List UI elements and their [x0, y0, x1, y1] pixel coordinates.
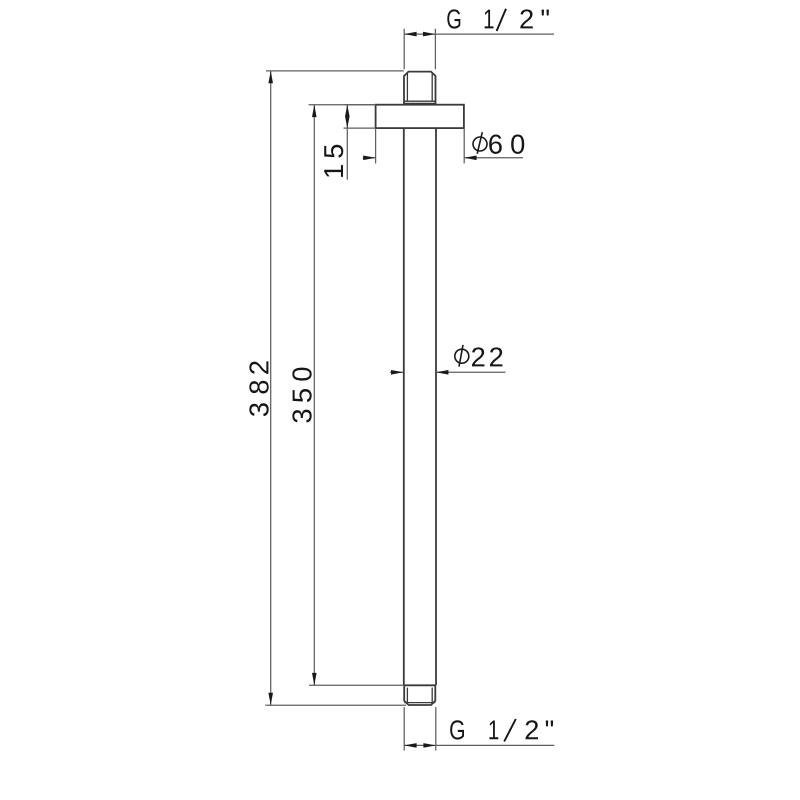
top connector thread inner lines	[404, 74, 436, 102]
label G 1/2" bottom	[450, 720, 553, 739]
tube bottom edge	[404, 684, 436, 686]
arrow 15 bottom	[345, 116, 350, 128]
slash of G 1/2 top	[497, 9, 506, 31]
tube left wall	[403, 128, 405, 685]
arrow 15 top	[345, 105, 350, 117]
tube right wall	[435, 128, 437, 685]
arrow G1/2 bottom left	[404, 743, 416, 748]
slash of G 1/2 bottom	[504, 719, 516, 742]
diameter symbol of phi22	[455, 345, 469, 367]
arrow phi22 right	[436, 370, 448, 375]
label 22 of phi22	[472, 347, 502, 366]
dim 350 top extension line	[309, 104, 376, 106]
dim 15 top extension line	[344, 104, 376, 106]
diameter symbol of phi60	[473, 132, 487, 154]
dim phi60 extension lines	[376, 128, 465, 163]
dim 350 bottom extension line	[309, 684, 404, 686]
dim 15 dimension line with tail	[346, 105, 348, 180]
dim 382 top extension line	[266, 70, 404, 72]
bottom connector G1/2 thread outer	[404, 685, 435, 705]
flange (wall plate)	[376, 105, 464, 128]
dim G1/2 top dimension line	[404, 33, 554, 35]
arrow phi60 right	[464, 156, 476, 161]
arrow G1/2 top left	[404, 32, 416, 37]
label 15	[324, 145, 343, 177]
dim 382 bottom extension line	[265, 704, 406, 706]
label G 1/2" top	[447, 9, 549, 28]
dim G1/2 bottom dimension line	[404, 744, 554, 746]
bottom connector thread inner lines	[404, 688, 435, 703]
arrow G1/2 bottom right	[423, 743, 435, 748]
arrow G1/2 top right	[423, 32, 435, 37]
arrow 382 bottom	[268, 693, 273, 705]
label 60 of phi60	[489, 135, 524, 154]
dim phi60 dimension line right tail	[464, 157, 523, 159]
dim phi22 dimension line right tail	[436, 371, 505, 373]
dim phi60 dimension line left tail	[363, 157, 376, 159]
label 382	[249, 361, 268, 416]
dim G1/2 bottom extension lines	[404, 707, 436, 751]
top connector G1/2 thread outer	[404, 72, 436, 104]
arrow 350 bottom	[312, 673, 317, 685]
arrow phi60 left	[363, 156, 375, 161]
dim G1/2 top extension lines	[404, 29, 435, 70]
dim 382 dimension line	[270, 71, 272, 705]
dim phi22 dimension line left tail	[390, 371, 403, 373]
arrow 350 top	[312, 105, 317, 117]
label 350	[292, 368, 311, 423]
dim 350 dimension line	[313, 105, 315, 686]
arrow phi22 left	[391, 370, 403, 375]
arrow 382 top	[268, 71, 273, 83]
dim 15 bottom extension line	[344, 127, 376, 129]
